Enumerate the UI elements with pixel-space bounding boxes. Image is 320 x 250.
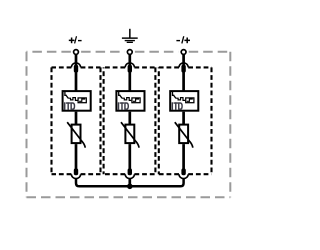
disconnector box U1	[63, 91, 91, 111]
wire terminal to disconnector	[182, 55, 185, 91]
module 2 enclosure (black dashed box)	[104, 67, 156, 174]
wire varistor to bottom contact	[182, 144, 185, 175]
plug contact bottom	[74, 168, 78, 175]
varistor RV2	[125, 125, 134, 144]
branch 2 (middle protection path)	[116, 55, 144, 179]
bottom bus wire	[76, 179, 184, 187]
step waveform	[68, 98, 77, 101]
indicator window	[186, 98, 194, 103]
varistor RV1	[72, 125, 81, 144]
hop arc bottom	[179, 174, 188, 178]
junction node	[127, 184, 133, 190]
hop arc top	[71, 63, 80, 68]
wire terminal to disconnector	[128, 55, 131, 91]
switch contact mark	[65, 92, 68, 98]
module 3 enclosure (black dashed box)	[159, 67, 212, 174]
terminal earth	[127, 50, 132, 55]
terminal -/+	[181, 50, 186, 55]
hop arc top	[179, 63, 188, 68]
plug contact bottom	[181, 168, 185, 175]
plug contact top	[181, 65, 185, 73]
wire middle riser	[128, 179, 131, 187]
indicator step	[79, 99, 85, 101]
hop arc bottom	[71, 174, 80, 178]
step waveform	[176, 98, 185, 101]
disconnector box U2	[116, 91, 144, 111]
varistor diagonal	[67, 122, 85, 148]
plug contact top	[128, 65, 132, 73]
wire disconnector to varistor	[75, 112, 78, 124]
plug contact bottom	[128, 168, 132, 175]
ITD label	[172, 102, 183, 110]
disconnector box U3	[170, 91, 198, 111]
wire disconnector to varistor	[128, 112, 131, 124]
indicator step	[133, 99, 139, 101]
varistor diagonal	[121, 122, 139, 148]
ITD label	[118, 102, 129, 110]
label -/+	[176, 36, 190, 44]
wire terminal to disconnector	[75, 55, 78, 91]
switch contact mark	[173, 92, 176, 98]
hop arc bottom	[125, 174, 134, 178]
step waveform	[122, 98, 131, 101]
indicator window	[132, 98, 140, 103]
terminal +/-	[74, 50, 79, 55]
wire varistor to bottom contact	[75, 144, 78, 175]
label +/-	[69, 36, 82, 44]
wire varistor to bottom contact	[128, 144, 131, 175]
indicator window	[78, 98, 86, 103]
hop arc top	[125, 63, 134, 68]
varistor RV3	[179, 125, 188, 144]
varistor diagonal	[175, 122, 193, 148]
wire disconnector to varistor	[182, 112, 185, 124]
plug contact top	[74, 65, 78, 73]
module 1 enclosure (black dashed box)	[52, 67, 101, 174]
branch 3 (right protection path)	[170, 55, 198, 179]
branch 1 (left protection path)	[63, 55, 91, 179]
ITD label	[64, 102, 75, 110]
indicator step	[187, 99, 193, 101]
switch contact mark	[119, 92, 122, 98]
earth ground symbol	[122, 29, 138, 43]
outer enclosure (device housing, gray dashed)	[27, 52, 231, 197]
